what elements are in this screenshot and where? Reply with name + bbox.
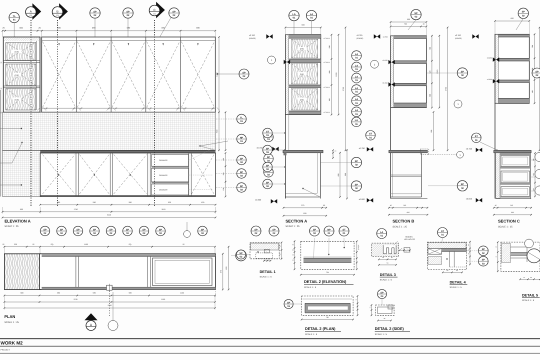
svg-text:SP: SP [43,228,47,231]
svg-text:SCALE 1 : 25: SCALE 1 : 25 [5,225,20,228]
svg-text:±1.600: ±1.600 [487,78,492,81]
svg-text:(XX): (XX) [15,98,19,101]
svg-text:PROJECT: PROJECT [1,349,11,352]
svg-text:600: 600 [511,211,514,214]
svg-text:SP: SP [287,301,291,304]
svg-text:1100: 1100 [84,243,88,246]
svg-text:SP: SP [461,70,465,73]
svg-text:SP: SP [414,12,418,15]
svg-text:DETAIL 2 (PLAN): DETAIL 2 (PLAN) [305,327,336,331]
svg-text:1740: 1740 [73,298,77,301]
svg-text:15: 15 [355,299,357,301]
svg-text:850: 850 [337,173,340,176]
svg-text:WORK M2: WORK M2 [1,341,24,346]
svg-text:LA: LA [355,119,358,122]
svg-text:DETAIL 5: DETAIL 5 [522,294,538,298]
svg-text:NP: NP [240,136,244,139]
svg-text:570: 570 [301,204,304,207]
svg-text:15: 15 [468,253,470,255]
svg-text:750: 750 [326,316,329,319]
svg-text:±2.700: ±2.700 [455,34,461,37]
svg-text:SP: SP [109,228,113,231]
svg-text:±0.000: ±0.000 [359,198,366,201]
svg-text:±0.750: ±0.750 [257,146,264,149]
svg-text:ST: ST [266,130,270,133]
svg-text:600: 600 [303,212,306,215]
svg-text:1160: 1160 [162,208,166,211]
svg-text:25: 25 [2,243,4,246]
svg-text:LA: LA [355,64,358,67]
svg-text:A: A [30,9,32,13]
svg-text:±1.600: ±1.600 [382,82,387,85]
svg-text:(XX): (XX) [15,51,19,54]
svg-text:580: 580 [57,292,60,295]
svg-text:SP: SP [201,228,205,231]
svg-text:SP: SP [461,183,465,186]
svg-text:SECTION B: SECTION B [393,218,415,223]
svg-text:25: 25 [183,243,185,246]
svg-text:(XX): (XX) [300,98,304,101]
svg-text:LA: LA [292,13,295,16]
svg-text:LA: LA [355,75,358,78]
svg-text:575: 575 [219,270,222,273]
svg-text:ST: ST [475,135,479,138]
svg-text:LED LIGHTS: LED LIGHTS [404,238,416,241]
svg-text:LA: LA [355,109,358,112]
svg-text:20: 20 [292,249,294,251]
svg-text:SP: SP [240,171,244,174]
svg-text:(SPARE): (SPARE) [455,37,462,40]
svg-text:400: 400 [201,201,204,204]
svg-text:B: B [56,9,58,13]
svg-text:690: 690 [20,292,23,295]
svg-text:600: 600 [216,130,219,133]
svg-text:SP: SP [522,11,526,14]
svg-text:±0.000: ±0.000 [466,198,473,201]
svg-text:SP: SP [380,291,384,294]
svg-text:±2.700: ±2.700 [357,34,363,37]
svg-text:580: 580 [129,292,132,295]
svg-text:±0.750: ±0.750 [466,147,473,150]
svg-text:SP: SP [482,259,486,262]
svg-text:15: 15 [369,307,371,309]
svg-text:30: 30 [323,204,325,207]
svg-text:LA: LA [310,13,313,16]
svg-text:SCALE 1 : 5: SCALE 1 : 5 [304,286,317,289]
svg-text:SP: SP [266,147,270,150]
svg-text:SP: SP [93,10,97,13]
svg-text:25: 25 [3,27,5,30]
svg-text:DRAWER: DRAWER [159,159,168,162]
svg-text:LA: LA [380,231,383,234]
svg-text:600: 600 [430,130,433,133]
svg-text:SP: SP [142,228,146,231]
svg-text:650: 650 [168,201,171,204]
svg-text:SCALE 1 : 5: SCALE 1 : 5 [522,299,535,302]
svg-text:SP: SP [172,10,176,13]
svg-text:SCALE 1 : 5: SCALE 1 : 5 [305,333,318,336]
svg-text:SECTION A: SECTION A [286,219,308,224]
svg-text:ST: ST [369,133,373,136]
svg-text:1290: 1290 [216,73,219,77]
svg-text:SP: SP [272,228,276,231]
svg-text:HIDDEN: HIDDEN [405,235,413,238]
svg-text:SCALE 1 : 5: SCALE 1 : 5 [380,279,393,282]
svg-text:1160: 1160 [180,292,184,295]
svg-text:15: 15 [292,254,294,256]
svg-text:580: 580 [93,201,96,204]
svg-text:60: 60 [530,277,532,279]
svg-text:SP: SP [76,228,80,231]
svg-text:35: 35 [292,244,294,246]
svg-text:SP: SP [254,228,258,231]
svg-text:SP: SP [159,228,163,231]
svg-text:45: 45 [523,277,525,279]
svg-text:±2.700: ±2.700 [249,34,255,37]
svg-text:SP: SP [60,228,64,231]
svg-text:±2.050: ±2.050 [487,57,492,60]
svg-text:DETAIL 4: DETAIL 4 [450,281,467,285]
svg-text:SP: SP [313,228,317,231]
svg-text:600: 600 [511,17,514,20]
svg-text:SP: SP [355,160,359,163]
svg-text:±2.050: ±2.050 [382,59,387,62]
svg-text:DRAWER: DRAWER [159,174,168,177]
svg-text:SP: SP [266,164,270,167]
svg-text:600: 600 [302,24,305,27]
svg-text:(SPARE): (SPARE) [357,37,364,40]
svg-text:1740: 1740 [74,208,78,211]
svg-text:SP: SP [242,71,246,74]
svg-text:DETAIL 2 (SIDE): DETAIL 2 (SIDE) [375,327,405,331]
svg-text:900: 900 [344,173,347,176]
svg-text:(XX): (XX) [300,48,304,51]
svg-text:600: 600 [407,18,410,21]
svg-text:SP: SP [266,181,270,184]
svg-text:NP: NP [327,228,331,231]
svg-text:LA: LA [355,53,358,56]
svg-text:750: 750 [326,271,329,274]
svg-text:5220: 5220 [108,304,112,307]
svg-text:DETAIL 3: DETAIL 3 [380,273,396,277]
svg-text:±0.300: ±0.300 [255,198,262,201]
svg-text:DETAIL 1: DETAIL 1 [260,270,276,274]
svg-text:ST: ST [441,230,445,233]
svg-text:SP: SP [93,228,97,231]
svg-text:5220: 5220 [107,214,111,217]
svg-text:SCALE 1 : 25: SCALE 1 : 25 [498,225,513,228]
svg-text:SCALE 1 : 5: SCALE 1 : 5 [260,275,273,278]
svg-text:(XX): (XX) [15,74,19,77]
svg-text:SCALE 1 : 5: SCALE 1 : 5 [450,286,463,289]
svg-text:600: 600 [407,211,410,214]
svg-text:ELEVATION A: ELEVATION A [5,219,31,224]
svg-text:PLAN: PLAN [4,314,15,319]
svg-text:SCALE 1 : 25: SCALE 1 : 25 [286,225,301,228]
svg-text:SP: SP [482,248,486,251]
svg-text:SECTION C: SECTION C [498,218,520,223]
svg-text:SP: SP [267,156,271,159]
svg-text:25: 25 [32,243,34,246]
svg-text:SP: SP [239,252,243,255]
svg-text:SP: SP [535,70,539,73]
svg-text:600: 600 [225,267,228,270]
svg-text:550: 550 [14,243,17,246]
svg-text:20: 20 [468,244,470,246]
svg-text:SP: SP [355,183,359,186]
svg-text:(SPARE): (SPARE) [249,37,256,40]
svg-text:SP: SP [240,185,244,188]
svg-text:SCALE 1 : 25: SCALE 1 : 25 [393,225,408,228]
svg-text:±0.750: ±0.750 [359,147,366,150]
svg-text:600: 600 [20,208,23,211]
svg-text:DETAIL 2 (ELEVATION): DETAIL 2 (ELEVATION) [304,279,347,284]
svg-text:SCALE 1 : 25: SCALE 1 : 25 [4,321,19,324]
svg-text:LA: LA [355,87,358,90]
svg-text:SCALE 1 : 5: SCALE 1 : 5 [375,333,388,336]
svg-text:15: 15 [292,259,294,261]
svg-text:2750: 2750 [342,87,345,91]
svg-text:580: 580 [129,201,132,204]
svg-text:SP: SP [126,228,130,231]
svg-text:SP: SP [240,157,244,160]
svg-text:DRAWER: DRAWER [159,188,168,191]
svg-text:580: 580 [93,292,96,295]
svg-text:(XX): (XX) [300,73,304,76]
svg-text:ST: ST [342,228,346,231]
svg-text:1160: 1160 [161,298,165,301]
svg-text:LA: LA [355,98,358,101]
svg-text:590: 590 [57,201,60,204]
svg-text:1500: 1500 [335,73,338,77]
svg-text:2750: 2750 [444,87,447,91]
svg-text:SP: SP [126,10,130,13]
